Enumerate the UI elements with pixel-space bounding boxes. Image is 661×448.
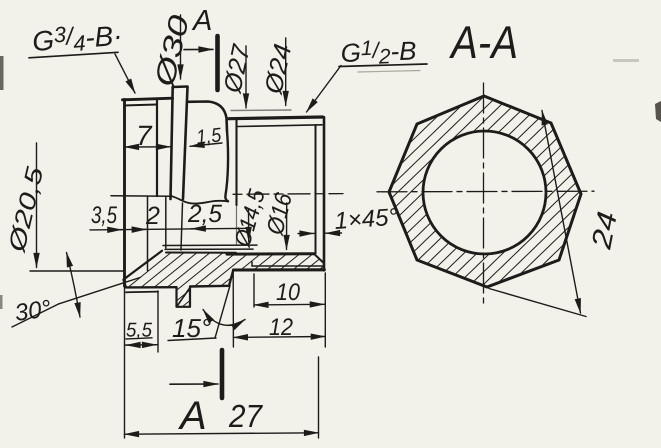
inner circle (423, 131, 546, 254)
octagon hatch fill (389, 96, 581, 287)
bottom edge left of tooth (126, 286, 177, 289)
hex silhouette right edge (225, 131, 228, 201)
svg-text:10: 10 (276, 279, 301, 306)
bore end chamfer (314, 254, 323, 263)
svg-text:7: 7 (136, 120, 153, 151)
svg-text:2: 2 (145, 202, 160, 230)
O20.5 arrow (36, 143, 38, 268)
tooth inner chamfer diagonal (178, 288, 191, 306)
dim 12 line (233, 336, 325, 339)
svg-text:A: A (178, 394, 207, 438)
section mark A top: thick line + arrow (215, 36, 220, 90)
octagon outline (389, 96, 581, 287)
right cylinder top thick edge (229, 117, 323, 119)
O20.5 ext line (30, 270, 125, 272)
dim 27 line (125, 433, 319, 434)
30 deg label underline + leader (12, 304, 59, 327)
O27 arrow (245, 46, 247, 108)
O16 arrow (286, 203, 288, 250)
vertical ext x165.8 (165, 197, 167, 248)
hatch top edge left (166, 252, 236, 254)
step vertical at x233 (229, 270, 233, 286)
dim 24 ext line (489, 289, 586, 317)
G3/4-B underline + leader (29, 52, 118, 58)
O30 arrow (180, 15, 182, 79)
chain dim line 3,5 / 2 / 2,5 (90, 228, 250, 230)
dim 10 ext (253, 274, 255, 307)
right edge inner thin line (315, 125, 317, 254)
dim 12 ext left (232, 272, 234, 347)
break line arc (hex bottom) (172, 196, 228, 203)
tooth right vertical (189, 287, 191, 306)
bottom edge right band (234, 268, 325, 271)
dim 27 ext right (318, 357, 320, 438)
centerline horizontal (377, 190, 594, 193)
left block top edge (123, 98, 173, 100)
svg-text:15°: 15° (172, 313, 211, 343)
svg-text:12: 12 (269, 314, 293, 341)
svg-text:2,5: 2,5 (187, 200, 222, 228)
scan smudge left edge top (0, 56, 4, 90)
section mark A bottom: thick line + arrow (220, 350, 225, 398)
O14.5 arrow (248, 210, 250, 242)
hex silhouette top edge + rounded corner (188, 102, 228, 132)
scan smudge top right faint (613, 59, 639, 62)
hex/cylinder junction vertical (235, 119, 237, 206)
svg-text:A-A: A-A (448, 16, 518, 68)
svg-text:27: 27 (228, 398, 263, 434)
flange right edge (183, 87, 188, 199)
ledge line below bottom edge (126, 291, 158, 294)
15 deg arc with arrows (203, 310, 245, 326)
1x45 dim: line from text, right arrow into gap (326, 232, 342, 234)
tooth left vertical (175, 287, 177, 306)
bottom edge mid (190, 285, 229, 288)
vertical ext x147.5 (147, 196, 149, 271)
svg-text:3,5: 3,5 (91, 202, 117, 229)
left edge of part (123, 100, 126, 287)
svg-text:30°: 30° (13, 295, 53, 327)
right cylinder thin crest line (231, 109, 291, 112)
ext line y196 (111, 195, 172, 197)
30 deg chamfer lower corner (124, 280, 127, 287)
inner step line (252, 262, 324, 266)
bore line right (thick) (227, 252, 314, 255)
scan smudge left edge mid (0, 295, 3, 309)
dim 27 ext left (124, 286, 126, 438)
centerline (axis) dash-dot (233, 193, 343, 196)
svg-text:1×45°: 1×45° (334, 204, 400, 235)
tooth bottom (177, 306, 191, 308)
left block right edge (156, 100, 158, 197)
counterbore line thin upper (163, 244, 257, 246)
dim 5,5 underline (126, 338, 152, 339)
dim 12 ext right (324, 273, 326, 347)
O24 arrow (285, 38, 287, 106)
dim 10 line (254, 303, 324, 306)
vertical ext x180 (flange edge ext) (181, 203, 183, 250)
counterbore line thin lower (165, 248, 253, 250)
dim 7 line (125, 146, 171, 148)
flange left edge (171, 87, 173, 199)
svg-text:5,5: 5,5 (126, 320, 153, 342)
scan smudge right edge (655, 101, 661, 122)
dim 5,5 arrows (126, 344, 134, 346)
left block chamfer line (125, 105, 158, 106)
30 deg chamfer line (124, 251, 163, 280)
hatch fill (124, 251, 325, 307)
right edge thick (323, 117, 326, 270)
dim 5,5 ext right (157, 291, 159, 352)
centerline vertical (483, 83, 485, 306)
flange top edge (173, 85, 188, 88)
G1/2-B underline + leader (339, 64, 427, 67)
15 deg label underline + leader (168, 338, 216, 341)
svg-text:1,5: 1,5 (195, 124, 223, 149)
dim 24 line (542, 111, 581, 314)
30 deg arc (67, 253, 81, 318)
dim 1,5 underline + leader arrow (197, 143, 222, 146)
right cylinder thread root line (237, 125, 322, 127)
